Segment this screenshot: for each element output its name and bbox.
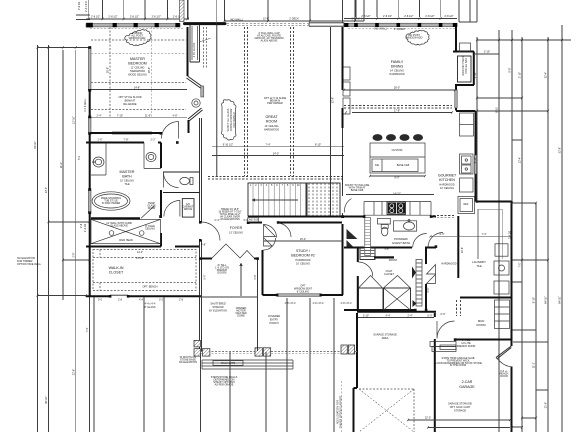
svg-text:52'-6": 52'-6" <box>559 147 562 153</box>
svg-text:8'-0": 8'-0" <box>395 177 400 180</box>
mud shelf box <box>440 345 456 350</box>
svg-text:13' CEILING: 13' CEILING <box>229 232 243 235</box>
dining sw corner wall <box>342 108 344 128</box>
svg-text:10'-6": 10'-6" <box>461 247 464 253</box>
svg-text:2'-8 1/2": 2'-8 1/2" <box>152 16 161 19</box>
dining west wall extension to top <box>342 0 344 23</box>
svg-text:WALK-IN: WALK-IN <box>109 266 124 270</box>
svg-text:2'-8 x 8'-0: 2'-8 x 8'-0 <box>285 302 296 305</box>
garage note <box>434 357 482 367</box>
svg-text:DINING: DINING <box>391 65 404 69</box>
svg-text:2'-8: 2'-8 <box>118 299 123 302</box>
right dim vertical B <box>498 30 500 432</box>
svg-text:5'-0: 5'-0 <box>98 299 103 302</box>
porch window dims <box>285 302 352 305</box>
svg-text:LAUNDRY: LAUNDRY <box>472 260 486 264</box>
svg-text:4'-8": 4'-8" <box>173 115 178 118</box>
cooktop <box>387 202 406 215</box>
svg-text:5'-6": 5'-6" <box>254 274 257 279</box>
shower box <box>91 219 160 243</box>
island dim 8-0 <box>370 175 425 177</box>
chimney hatched strip <box>180 0 185 22</box>
closet A bifold <box>359 276 382 288</box>
one sue box at stairs <box>247 218 259 222</box>
bath dim row <box>98 139 156 142</box>
great room west dotted shelf band <box>204 27 207 68</box>
svg-text:BASE CAB: BASE CAB <box>351 189 364 192</box>
svg-text:ABOVE: ABOVE <box>184 208 193 211</box>
family dining dim line <box>344 18 457 20</box>
right dim vertical A <box>476 37 478 203</box>
svg-text:15'-2": 15'-2" <box>300 238 306 241</box>
svg-text:32'-8": 32'-8" <box>332 97 335 103</box>
stair dim labels <box>223 144 322 156</box>
wc door arc <box>164 173 179 188</box>
svg-text:CUSTOM: CUSTOM <box>392 149 403 152</box>
west window end blocks <box>88 46 91 214</box>
bath-closet wall <box>86 246 199 248</box>
mb window dim row <box>91 117 187 119</box>
svg-text:WINDOW ADD: WINDOW ADD <box>406 37 423 40</box>
closet B box with X <box>384 288 411 310</box>
east wall kitchen wing <box>475 111 477 202</box>
shower glass door diagonal <box>141 206 155 219</box>
svg-text:84'-10": 84'-10" <box>559 296 562 304</box>
study walls <box>263 224 343 295</box>
garage angled door wall <box>496 346 511 359</box>
foyer hall notes <box>215 264 229 275</box>
dotted row below MB wall <box>90 28 455 30</box>
window mullions master bedroom <box>86 23 179 28</box>
kitchen counter band <box>364 202 431 216</box>
great room note <box>264 97 287 105</box>
svg-text:7'-8": 7'-8" <box>124 139 129 142</box>
north window wall master bedroom <box>86 24 180 27</box>
room label foyer <box>229 226 243 235</box>
kitchen south wall <box>344 216 436 218</box>
svg-text:GOURMET: GOURMET <box>438 174 457 178</box>
svg-text:2'-8 1/2": 2'-8 1/2" <box>108 16 117 19</box>
svg-text:TILE: TILE <box>124 183 130 186</box>
svg-text:28'-0": 28'-0" <box>394 87 400 90</box>
svg-text:2'-8 1/2": 2'-8 1/2" <box>404 15 413 18</box>
svg-text:2' DECK: 2' DECK <box>289 18 299 21</box>
svg-text:2 X 6 WALL: 2 X 6 WALL <box>84 98 87 112</box>
svg-text:2'-4": 2'-4" <box>97 115 102 118</box>
svg-text:MASTER: MASTER <box>120 170 135 174</box>
left tie top <box>38 47 91 49</box>
svg-text:11'-2": 11'-2" <box>60 162 63 168</box>
right mid rotated labels <box>474 72 477 163</box>
foyer arrow dim <box>240 263 242 296</box>
dining east wall upper <box>455 27 457 52</box>
great room east wall <box>330 27 332 216</box>
alcove bottom dim <box>200 296 258 298</box>
svg-text:IN PAD OWNER: IN PAD OWNER <box>102 202 121 205</box>
svg-text:17'-8": 17'-8" <box>394 110 400 113</box>
svg-text:DOME: DOME <box>237 315 245 318</box>
svg-text:FAMILY: FAMILY <box>391 60 404 64</box>
svg-text:CLOSET: CLOSET <box>384 273 394 276</box>
west wall window (master bedroom) <box>88 48 91 90</box>
right dim vertical D <box>521 37 523 432</box>
tub note <box>101 197 121 205</box>
porch west wall double line <box>200 297 202 352</box>
svg-text:IN THE DOOR: IN THE DOOR <box>450 364 467 367</box>
mud room south wall <box>455 339 512 341</box>
room label great room <box>264 115 279 132</box>
door triangles at bench <box>412 267 417 308</box>
stairs bottom wall <box>248 216 344 218</box>
foyer closet zigzag doors <box>212 244 254 258</box>
svg-text:7'-4": 7'-4" <box>266 144 271 147</box>
svg-text:6'-10: 6'-10 <box>496 107 499 113</box>
room label powder bath <box>392 237 410 245</box>
left tie mid2 <box>63 259 90 261</box>
svg-text:TILE: TILE <box>476 265 482 268</box>
mud room door arc from hall <box>437 321 455 339</box>
hall gallery west wall <box>200 118 202 297</box>
svg-text:DOORS: DOORS <box>217 272 227 275</box>
garage 22-0 dim <box>408 420 510 428</box>
svg-text:8' CEILING: 8' CEILING <box>297 291 310 294</box>
svg-text:2' WIDER: 2' WIDER <box>394 28 405 31</box>
study north wall <box>248 222 342 224</box>
svg-text:MASTER: MASTER <box>130 57 145 61</box>
air handler closet <box>182 199 194 218</box>
west wall window (bath) <box>88 117 91 133</box>
butler nook cabinet <box>458 56 472 82</box>
entry alcove arcs small <box>264 225 277 251</box>
svg-text:2'-10": 2'-10" <box>484 51 490 54</box>
storage dim row <box>358 317 434 319</box>
fireplace cabinets <box>343 67 350 114</box>
bath vanity top counter <box>144 143 161 169</box>
garage storage north wall <box>357 311 436 313</box>
svg-text:BEDROOM: BEDROOM <box>128 62 147 66</box>
kitchen east sink cabinets <box>460 154 474 174</box>
bay round window <box>192 99 200 107</box>
bath sink 1 <box>93 157 104 167</box>
room label walk-in closet <box>109 266 124 275</box>
storage dims <box>363 315 433 318</box>
gallery door arc <box>202 222 221 241</box>
svg-text:BASE CAB: BASE CAB <box>397 164 410 167</box>
svg-text:2'-4": 2'-4" <box>215 219 220 222</box>
stairs outline <box>248 183 306 216</box>
foyer dim labels <box>215 219 249 222</box>
svg-text:9'-10": 9'-10" <box>315 144 321 147</box>
bottom dim slashes <box>407 419 511 429</box>
svg-text:PER OWNER: PER OWNER <box>267 102 283 105</box>
tile labels <box>383 248 397 277</box>
room label family dining <box>389 60 404 76</box>
study french doors west <box>264 225 276 247</box>
right ties <box>477 40 571 427</box>
study south window <box>277 294 321 297</box>
svg-text:64'-10": 64'-10" <box>545 296 548 304</box>
28-0 dim slashes <box>343 89 456 178</box>
svg-text:9'-8": 9'-8" <box>201 244 206 247</box>
great room dashed ceiling pair 2 <box>291 27 294 176</box>
svg-text:13'-0": 13'-0" <box>45 187 48 193</box>
svg-text:BEDROOM #2: BEDROOM #2 <box>291 254 315 258</box>
shaft diagonal arrow <box>200 38 212 42</box>
east window below nook <box>455 90 457 108</box>
kitchen island <box>370 143 425 173</box>
dining-kitchen dashed edge <box>344 106 452 109</box>
room label laundry <box>472 260 486 268</box>
wc toilet <box>180 177 193 184</box>
refrigerator <box>458 197 475 214</box>
svg-text:7'-4": 7'-4" <box>86 327 89 332</box>
closet A box <box>359 288 384 310</box>
svg-text:2'-4": 2'-4" <box>408 315 413 318</box>
linen closet <box>360 248 375 260</box>
svg-text:WINDOW ADD: WINDOW ADD <box>129 37 146 40</box>
bath north wall <box>86 142 161 144</box>
powder toilet <box>381 225 388 236</box>
svg-text:2'-8 1/2": 2'-8 1/2" <box>444 15 453 18</box>
svg-text:2 PC GLASS: 2 PC GLASS <box>193 42 196 57</box>
master bedroom floor dotted border <box>91 109 186 111</box>
right dim vertical C <box>511 30 513 203</box>
svg-text:8'-8": 8'-8" <box>509 67 512 72</box>
svg-text:ALIGN ABOVE: ALIGN ABOVE <box>261 40 278 43</box>
great room west wall <box>216 24 218 176</box>
wc labels <box>147 202 194 211</box>
foyer south wall <box>200 258 258 260</box>
svg-text:2'-8 1/2": 2'-8 1/2" <box>425 15 434 18</box>
svg-text:8' GLASS: 8' GLASS <box>145 306 156 309</box>
svg-text:38'-10": 38'-10" <box>45 396 48 404</box>
svg-text:4'-4: 4'-4 <box>139 299 144 302</box>
left tie mid1 <box>49 221 90 223</box>
svg-text:7'-0": 7'-0" <box>519 262 522 267</box>
study 15'-2 dim <box>264 240 342 242</box>
svg-text:2-CAR: 2-CAR <box>462 380 473 384</box>
svg-text:CEILING: CEILING <box>145 228 155 231</box>
mud west dashed opening <box>457 300 461 316</box>
hall east wall <box>425 247 427 311</box>
svg-text:BATH: BATH <box>122 175 132 179</box>
svg-text:6'-0": 6'-0" <box>441 313 446 316</box>
hall door arc lower <box>164 201 180 217</box>
dining dims <box>393 87 401 196</box>
no-wall dashed edge great room <box>227 23 308 26</box>
svg-text:2'-10": 2'-10" <box>363 315 369 318</box>
svg-text:HARDWOOD: HARDWOOD <box>264 129 279 132</box>
left dim vertical D <box>75 50 77 432</box>
garage east wall <box>511 367 513 432</box>
powder bath east door arc <box>413 234 427 248</box>
stair treads <box>253 183 301 216</box>
svg-text:AS ELEVATIONS: AS ELEVATIONS <box>220 218 240 221</box>
great room top ticks <box>225 0 365 21</box>
svg-text:HARDWOOD: HARDWOOD <box>389 73 404 76</box>
laundry hall door arc <box>428 233 443 248</box>
left wall rotated text <box>84 98 87 112</box>
laundry wing north wall <box>476 201 512 203</box>
beam over opening <box>309 23 344 26</box>
porch alcove east wall <box>257 259 259 352</box>
right dim vertical E <box>535 203 537 432</box>
svg-text:2'-2": 2'-2" <box>151 139 156 142</box>
powder vanity <box>378 218 417 231</box>
svg-text:TIMBER OPTION SUPPORT: TIMBER OPTION SUPPORT <box>340 395 343 428</box>
left dim vertical B <box>48 45 50 432</box>
svg-text:6'-10": 6'-10" <box>474 157 477 163</box>
room label master bath <box>120 170 135 186</box>
garage steps <box>430 342 456 352</box>
closet B bifold <box>384 276 410 288</box>
stair arrow <box>252 199 298 201</box>
window mullions family dining <box>344 23 457 27</box>
left column small labels <box>78 155 87 232</box>
laundry interior counters <box>478 209 502 259</box>
hall dims <box>427 233 487 316</box>
svg-text:HARDWOOD: HARDWOOD <box>441 263 456 266</box>
alcove rotated dims <box>204 274 257 279</box>
south wall door gap lines <box>110 294 128 296</box>
stair note <box>218 208 241 221</box>
study east french doors <box>347 229 358 248</box>
island bar stools <box>373 134 424 141</box>
svg-text:2'-8 1/2: 2'-8 1/2 <box>78 1 81 10</box>
svg-text:32'-4": 32'-4" <box>545 72 548 78</box>
kitchen east dashed continuation <box>433 216 454 218</box>
svg-text:GARAGE: GARAGE <box>459 385 475 389</box>
svg-text:FOYER: FOYER <box>230 226 243 230</box>
mb note <box>118 96 141 106</box>
powder bath south wall <box>344 247 436 249</box>
svg-text:15'-10": 15'-10" <box>136 257 144 260</box>
svg-text:11'-6": 11'-6" <box>145 115 151 118</box>
kitchen east cabinet <box>460 178 474 192</box>
svg-text:BY ELEVATION: BY ELEVATION <box>209 310 227 313</box>
svg-text:COFFEE BAR: COFFEE BAR <box>465 58 468 74</box>
svg-text:10' CEILING: 10' CEILING <box>440 187 454 190</box>
left rotated labels <box>34 116 89 404</box>
butler nook north wall <box>453 51 474 53</box>
laundry rotated dim <box>461 247 464 253</box>
svg-text:STORAGE: STORAGE <box>454 410 467 413</box>
garage side rotated note <box>337 395 343 428</box>
svg-text:NO ELEVATION: NO ELEVATION <box>179 361 197 364</box>
svg-text:2'-4 x 6'-8: 2'-4 x 6'-8 <box>85 1 88 12</box>
study arcs from french doors <box>277 223 291 237</box>
reach door note <box>500 370 509 378</box>
svg-text:3'-2: 3'-2 <box>159 299 164 302</box>
tick slashes left ties <box>37 46 91 297</box>
master bedroom south wall with pocket door <box>90 132 161 134</box>
great room dashed ceiling pair 1 <box>245 27 248 176</box>
revision cloud great room west <box>222 100 237 140</box>
master bedroom east wall <box>187 27 189 76</box>
west wall solid segments <box>89 90 91 297</box>
south dim row left wing <box>98 299 184 302</box>
great room west wall extension to top <box>216 0 218 24</box>
master bedroom ceiling dashed lines <box>91 27 186 117</box>
mb window dims <box>97 115 178 118</box>
room label study <box>291 249 315 266</box>
svg-text:22'-6": 22'-6" <box>73 369 76 375</box>
left note text <box>17 257 42 266</box>
laundry-mud dividing wall <box>460 297 512 299</box>
svg-text:8'-10": 8'-10" <box>474 72 477 78</box>
svg-text:WALK GATE: WALK GATE <box>221 362 236 365</box>
right extra rotated label <box>496 107 512 239</box>
room label garage storage area <box>373 334 397 341</box>
study dims <box>294 238 312 294</box>
svg-text:7'-10": 7'-10" <box>117 115 123 118</box>
powder bath pocket ladder <box>365 218 371 256</box>
svg-text:FRONT: FRONT <box>389 259 398 262</box>
laundry west wall <box>457 216 459 278</box>
mud note <box>457 339 476 348</box>
porch base note <box>179 356 197 364</box>
svg-text:5'-0: 5'-0 <box>78 155 81 160</box>
study south wall <box>263 294 344 296</box>
svg-text:2'-8 x 8'-0: 2'-8 x 8'-0 <box>313 302 324 305</box>
svg-text:2'-8 x 8'-0: 2'-8 x 8'-0 <box>341 302 352 305</box>
shower notes <box>106 222 155 242</box>
right rotated labels <box>509 67 562 408</box>
svg-text:RAIN HEAD: RAIN HEAD <box>119 239 133 242</box>
family dining west wall <box>342 27 344 90</box>
svg-text:14'-2": 14'-2" <box>137 251 143 254</box>
master bedroom dim line 14'-8 <box>91 89 187 91</box>
closet hall east wall <box>160 233 162 247</box>
svg-text:ROOM: ROOM <box>477 323 487 327</box>
svg-text:2'-8 1/2": 2'-8 1/2" <box>91 16 100 19</box>
svg-text:16'-8": 16'-8" <box>107 67 110 73</box>
dimension line master bedroom <box>86 18 189 20</box>
svg-text:2'-10": 2'-10" <box>519 72 522 78</box>
hall big door arc <box>358 262 373 277</box>
east wall laundry-mud <box>511 202 513 347</box>
left south dims <box>145 303 227 313</box>
nook tie <box>474 53 499 55</box>
bench strip hall <box>416 260 422 307</box>
svg-text:16'-8": 16'-8" <box>148 67 151 73</box>
svg-text:1'-4 1/2: 1'-4 1/2 <box>84 223 87 232</box>
room label master bedroom <box>128 57 147 77</box>
butler nook label <box>462 56 468 76</box>
tick slashes right ties <box>476 39 563 429</box>
closet dims <box>136 251 158 289</box>
room label gourmet kitchen <box>438 174 457 191</box>
svg-text:5'-0": 5'-0" <box>427 287 430 292</box>
svg-text:5'-0": 5'-0" <box>204 274 207 279</box>
svg-text:8'-10": 8'-10" <box>533 297 536 303</box>
bath vanity west counter <box>91 143 106 176</box>
svg-text:PER OWNER: PER OWNER <box>233 112 236 128</box>
master bedroom bay upper diagonal <box>187 76 202 88</box>
hall west wall <box>357 247 359 310</box>
alcove note great room <box>255 32 284 43</box>
svg-text:14'-10": 14'-10" <box>393 193 401 196</box>
svg-text:AS PER GRADE: AS PER GRADE <box>215 384 234 387</box>
svg-text:2'-8 1/2": 2'-8 1/2" <box>383 15 392 18</box>
svg-text:4'-4": 4'-4" <box>386 315 391 318</box>
family dining ticks <box>356 0 441 17</box>
butler nook east wall <box>473 52 475 86</box>
svg-text:PORCH: PORCH <box>269 322 278 325</box>
p-beam dashed <box>208 177 344 180</box>
left dim vertical C <box>62 50 64 300</box>
garage storage west wall <box>354 313 358 432</box>
